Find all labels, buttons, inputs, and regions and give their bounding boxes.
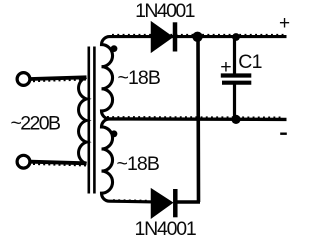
- transformer core line left: [88, 47, 91, 194]
- transformer core line right: [93, 47, 96, 194]
- terminal bottom-left input: [17, 155, 30, 168]
- svg-text:C1: C1: [238, 51, 261, 73]
- diode VD2 triangle: [152, 189, 173, 217]
- svg-text:1N4001: 1N4001: [134, 218, 195, 240]
- svg-text:1N4001: 1N4001: [135, 0, 194, 22]
- junction node top rail / diode branch: [192, 32, 202, 42]
- wire bottom rail (center tap to - output): [105, 117, 287, 121]
- svg-text:~18В: ~18В: [118, 67, 160, 89]
- svg-text:~18В: ~18В: [117, 153, 159, 175]
- capacitor C1 top lead: [233, 37, 236, 74]
- polarity dot bottom winding: [111, 130, 118, 137]
- transformer T1 primary winding: [79, 77, 87, 163]
- junction node capacitor bottom: [231, 115, 240, 124]
- wire bottom terminal to primary: [31, 162, 87, 164]
- wire texture bottom winding wire: [113, 199, 150, 202]
- terminal top-left input: [17, 73, 30, 86]
- wire vertical diode branch: [176, 37, 200, 202]
- wire top terminal to primary: [31, 77, 87, 79]
- transformer secondary winding bottom + wire to diode VD2: [102, 119, 155, 202]
- capacitor C1 bottom plate: [222, 81, 251, 85]
- label - output: [280, 133, 287, 135]
- svg-text:+: +: [220, 56, 231, 78]
- transformer secondary winding top + top rail wire: [102, 37, 287, 119]
- capacitor C1 top plate: [221, 73, 252, 77]
- wire texture top rail: [112, 34, 284, 36]
- junction node capacitor top: [232, 33, 240, 41]
- capacitor C1 bottom lead: [233, 85, 236, 120]
- diode VD2 cathode bar: [173, 189, 178, 217]
- diode VD1 triangle: [152, 22, 173, 51]
- svg-text:+: +: [279, 13, 290, 34]
- polarity dot top winding: [111, 45, 118, 52]
- diode VD1 cathode bar: [173, 22, 178, 51]
- svg-text:~220В: ~220В: [11, 113, 61, 135]
